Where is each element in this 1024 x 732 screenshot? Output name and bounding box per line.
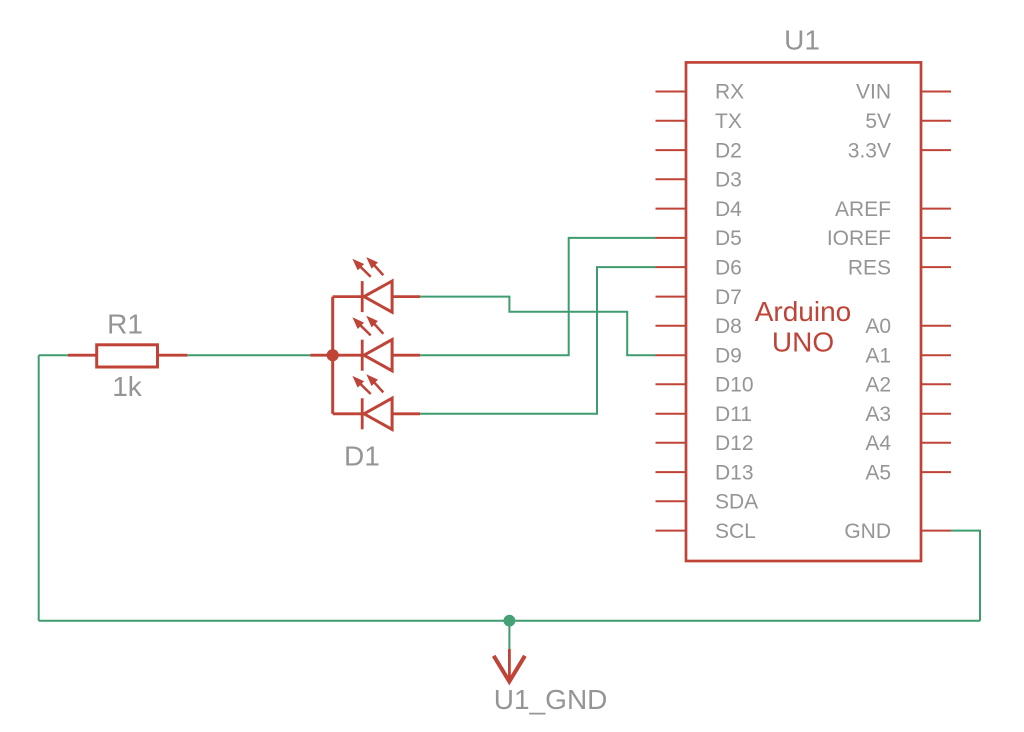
svg-text:TX: TX xyxy=(715,110,742,133)
U1 part name Arduino UNO xyxy=(755,296,852,358)
wire: right vertical from GND pin to bottom rail xyxy=(951,531,980,621)
svg-text:RX: RX xyxy=(715,81,744,104)
wire: ground symbol drop from bottom rail xyxy=(508,621,510,651)
svg-text:A5: A5 xyxy=(865,461,891,484)
pin SDA xyxy=(656,500,687,502)
svg-text:R1: R1 xyxy=(107,308,143,339)
junction: D1 common node dot xyxy=(327,349,339,361)
svg-text:A3: A3 xyxy=(865,403,891,426)
pin D7 xyxy=(656,296,687,298)
ground U1_GND symbol xyxy=(494,649,525,682)
svg-text:SDA: SDA xyxy=(715,491,758,514)
resistor R1 xyxy=(68,345,187,367)
pin AREF xyxy=(921,208,951,210)
svg-text:A4: A4 xyxy=(865,432,891,455)
pin A4 xyxy=(921,442,951,444)
LED D1 common bus (common cathode line) xyxy=(311,297,333,414)
svg-text:IOREF: IOREF xyxy=(827,227,891,250)
pin D9 xyxy=(656,354,687,356)
svg-text:A0: A0 xyxy=(865,315,891,338)
svg-text:SCL: SCL xyxy=(715,520,756,543)
svg-text:D7: D7 xyxy=(715,286,742,309)
pin D6 xyxy=(656,266,687,268)
pin RES xyxy=(921,266,951,268)
svg-text:A1: A1 xyxy=(865,344,891,367)
pin D12 xyxy=(656,442,687,444)
pin 3.3V xyxy=(921,149,951,151)
svg-text:RES: RES xyxy=(848,256,891,279)
pin D13 xyxy=(656,471,687,473)
pin A3 xyxy=(921,413,951,415)
svg-text:VIN: VIN xyxy=(856,81,891,104)
svg-text:D9: D9 xyxy=(715,344,742,367)
pin A1 xyxy=(921,354,951,356)
LED D1 top element (to D9) xyxy=(333,257,421,312)
wire: left stub into R1 xyxy=(39,354,68,356)
wire: bottom ground rail xyxy=(39,620,980,622)
pin RX xyxy=(656,91,687,93)
svg-text:D8: D8 xyxy=(715,315,742,338)
svg-text:3.3V: 3.3V xyxy=(848,139,891,162)
svg-text:A2: A2 xyxy=(865,373,891,396)
pin A2 xyxy=(921,383,951,385)
pin D3 xyxy=(656,178,687,180)
wire: R1 to D1 common node xyxy=(187,354,312,356)
pin D11 xyxy=(656,413,687,415)
svg-text:D4: D4 xyxy=(715,198,742,221)
svg-text:GND: GND xyxy=(844,520,891,543)
svg-text:UNO: UNO xyxy=(772,327,834,358)
pin SCL xyxy=(656,530,687,532)
left pin labels xyxy=(715,81,758,543)
LED D1 bottom element (to D6) xyxy=(333,374,421,429)
svg-text:Arduino: Arduino xyxy=(755,296,852,327)
net label U1_GND xyxy=(494,684,608,715)
pin VIN xyxy=(921,91,951,93)
IC U1 Arduino UNO body xyxy=(686,62,921,561)
pin GND xyxy=(921,530,951,532)
svg-text:D11: D11 xyxy=(715,403,752,426)
svg-text:U1: U1 xyxy=(784,25,820,56)
svg-text:D12: D12 xyxy=(715,432,754,455)
U1 reference label xyxy=(784,25,820,56)
pin A0 xyxy=(921,325,951,327)
svg-text:D10: D10 xyxy=(715,373,754,396)
left pin stubs of U1 xyxy=(656,92,687,531)
svg-text:AREF: AREF xyxy=(835,198,891,221)
right pin labels xyxy=(827,81,891,543)
svg-text:U1_GND: U1_GND xyxy=(494,684,608,715)
svg-text:D3: D3 xyxy=(715,169,742,192)
pin A5 xyxy=(921,471,951,473)
R1 reference label xyxy=(107,308,143,339)
pin 5V xyxy=(921,120,951,122)
right pin stubs of U1 xyxy=(921,92,951,531)
svg-text:1k: 1k xyxy=(112,371,143,402)
pin D8 xyxy=(656,325,687,327)
svg-text:5V: 5V xyxy=(865,110,891,133)
wire: D1 top (red LED) anode to pin D9 xyxy=(420,297,655,356)
pin D10 xyxy=(656,383,687,385)
LED D1 middle element (to D5) xyxy=(333,316,421,371)
pin D5 xyxy=(656,237,687,239)
svg-text:D2: D2 xyxy=(715,139,742,162)
svg-text:D6: D6 xyxy=(715,256,742,279)
svg-text:D1: D1 xyxy=(344,441,380,472)
junction: ground node dot on bottom rail xyxy=(504,615,516,627)
D1 reference label xyxy=(344,441,380,472)
pin D2 xyxy=(656,149,687,151)
pin D4 xyxy=(656,208,687,210)
wire: left vertical from R1 row down to bottom rail xyxy=(38,355,40,621)
pin TX xyxy=(656,120,687,122)
pin IOREF xyxy=(921,237,951,239)
svg-text:D5: D5 xyxy=(715,227,742,250)
wire: D1 middle (green LED) anode to pin D5 xyxy=(420,238,655,355)
svg-text:D13: D13 xyxy=(715,461,754,484)
wire: D1 bottom (blue LED) anode to pin D6 xyxy=(420,267,655,414)
R1 value label 1k xyxy=(112,371,143,402)
